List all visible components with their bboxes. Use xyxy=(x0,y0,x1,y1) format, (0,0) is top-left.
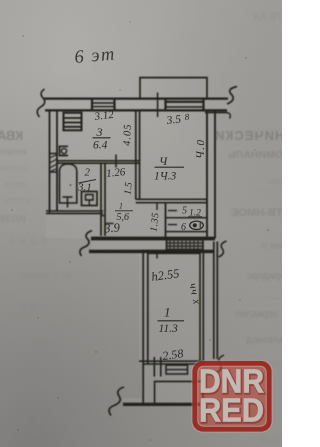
break symbol left end of north wall xyxy=(37,89,45,117)
hatched vent block xyxy=(167,239,204,252)
room 1 south wall xyxy=(139,360,204,362)
break symbol bottom-left xyxy=(109,387,124,416)
window kitchen (3.12) xyxy=(91,99,93,111)
vent shaft hatch in west wall xyxy=(50,154,58,173)
bathroom south wall xyxy=(46,210,103,212)
wall top band: exterior north wall xyxy=(44,97,228,99)
south exterior wall segment xyxy=(123,403,200,406)
scan speckles xyxy=(11,21,268,440)
kitchen sink fixture xyxy=(60,146,69,155)
room 1 north wall xyxy=(148,250,200,252)
thick middle wall upper line xyxy=(91,237,215,241)
closet 6 oval symbol xyxy=(190,221,204,229)
break symbol bottom of east wall xyxy=(216,355,224,373)
break symbol middle-left xyxy=(80,231,92,257)
wire: band lower-edge extension right xyxy=(205,112,227,114)
balcony door jambs xyxy=(153,357,155,377)
tick: wall segment divider on north wall xyxy=(157,93,159,118)
closets 5/6 left edge xyxy=(165,203,167,237)
room 1 east wall xyxy=(199,252,201,364)
area 5.6 corridor xyxy=(115,210,133,212)
floor plan lines xyxy=(37,78,237,416)
bathroom east wall xyxy=(100,163,102,236)
handwritten labels xyxy=(74,44,208,363)
lighter paper inside plan xyxy=(44,98,228,406)
tick dashes for closet labels xyxy=(168,210,177,212)
tick door jamb kitchen xyxy=(115,155,117,168)
balcony slab outline xyxy=(155,381,203,403)
thick middle wall lower line xyxy=(89,250,213,253)
left exterior west wall xyxy=(49,110,51,212)
break symbol right of middle wall xyxy=(219,241,227,257)
partition kitchen | room 4 xyxy=(135,110,137,199)
stove in kitchen xyxy=(64,113,82,131)
balcony window sill lines xyxy=(166,365,188,375)
fraction bar room 4 xyxy=(155,166,185,168)
east wall of upper section xyxy=(206,111,208,239)
east building wall lower section xyxy=(213,242,215,360)
loggia outline above room 4 xyxy=(140,78,207,99)
room 1 west wall xyxy=(142,250,144,407)
closet divider lines xyxy=(166,217,208,219)
svg-text:RED: RED xyxy=(199,392,264,429)
window room4 (3.58) xyxy=(164,99,166,111)
bathtub xyxy=(60,164,77,203)
washbasin / toilet in bathroom xyxy=(82,192,98,206)
DNR RED watermark xyxy=(192,360,272,432)
room 4 south wall xyxy=(136,198,207,200)
fraction bar room 1 xyxy=(158,320,185,322)
fraction bar room 3 xyxy=(93,137,111,139)
door line corridor entrance xyxy=(105,222,114,224)
break symbol right end of north wall xyxy=(227,87,237,105)
fraction bar room 2 xyxy=(79,180,97,184)
wall kitchen/bathroom (south wall of kitchen) xyxy=(57,160,140,162)
